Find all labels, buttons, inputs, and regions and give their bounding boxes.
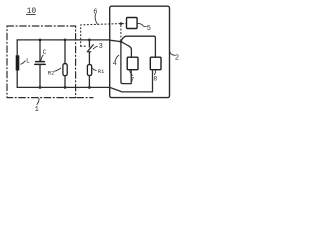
dash-dot box 1 (resonant circuit assembly border) bbox=[7, 26, 76, 98]
dotted box 6 (control line to switch) bbox=[81, 24, 127, 47]
leader for C bbox=[41, 55, 43, 61]
wire bottom rail into box 2 to box 8 bottom bbox=[110, 70, 153, 92]
svg-text:L: L bbox=[26, 58, 30, 65]
svg-text:4: 4 bbox=[113, 60, 117, 68]
wire capacitor branch lower bbox=[39, 65, 41, 88]
wire left branch bbox=[16, 40, 18, 88]
resistor R2 bbox=[63, 64, 67, 76]
svg-text:3: 3 bbox=[99, 43, 103, 51]
wire bottom rail bbox=[17, 86, 110, 88]
svg-text:R1: R1 bbox=[98, 68, 105, 75]
leader for 6 bbox=[95, 14, 97, 24]
switch 3 contact tick bbox=[87, 51, 91, 53]
dash-dot bottom extension bbox=[77, 97, 93, 99]
dotted control drop line bbox=[120, 26, 122, 41]
node capacitor bottom bbox=[39, 86, 42, 89]
svg-text:1: 1 bbox=[35, 106, 39, 114]
wire W1 into box 2 bbox=[110, 40, 121, 41]
switch 3 blade bbox=[88, 45, 94, 52]
leader for L bbox=[21, 61, 25, 64]
leader for 3 bbox=[93, 46, 97, 49]
label 10 (figure reference, underlined) bbox=[26, 7, 36, 16]
wire switch upper stub bbox=[88, 40, 90, 47]
node dotted T-junction bbox=[120, 22, 123, 25]
wire R2 branch lower bbox=[64, 76, 66, 88]
leader for 1 bbox=[37, 98, 39, 104]
node R2 bottom bbox=[64, 86, 67, 89]
unit box 7 bbox=[127, 57, 138, 69]
wire switch to R1 bbox=[88, 52, 90, 64]
unit box 5 bbox=[127, 18, 138, 29]
capacitor C plates bbox=[35, 62, 45, 65]
dotted box 6 bottom edge bbox=[81, 45, 87, 47]
node W1 junction bbox=[120, 40, 123, 43]
node capacitor top bbox=[39, 39, 42, 42]
node R1 bottom bbox=[88, 86, 91, 89]
control unit box 2 (outer solid box) bbox=[110, 6, 170, 97]
unit box 8 bbox=[150, 57, 161, 69]
svg-text:5: 5 bbox=[147, 25, 151, 33]
node switch top bbox=[88, 39, 91, 42]
node R2 top bbox=[64, 39, 67, 42]
leader for R1 bbox=[93, 69, 97, 71]
wire capacitor branch upper bbox=[39, 40, 41, 61]
wire R1 lower bbox=[88, 76, 90, 88]
wire junction to box 8 top bbox=[121, 36, 155, 57]
svg-text:R2: R2 bbox=[48, 69, 55, 76]
wire junction to box 7 top bbox=[121, 42, 131, 58]
leader for 8 bbox=[154, 70, 155, 75]
leader for 7 bbox=[130, 70, 133, 75]
wire top rail bbox=[17, 39, 110, 41]
wire R2 branch upper bbox=[64, 40, 66, 64]
leader for 2 bbox=[170, 52, 175, 56]
leader for R2 bbox=[55, 68, 61, 71]
inductor L (solid bar) bbox=[16, 55, 20, 70]
svg-text:7: 7 bbox=[130, 76, 134, 83]
wire junction down to box 7 bottom bbox=[121, 42, 131, 84]
leader for 5 bbox=[138, 23, 147, 26]
leader for 4 bbox=[116, 55, 119, 59]
resistor R1 bbox=[87, 65, 91, 76]
svg-text:2: 2 bbox=[175, 54, 179, 62]
svg-text:8: 8 bbox=[153, 76, 157, 83]
